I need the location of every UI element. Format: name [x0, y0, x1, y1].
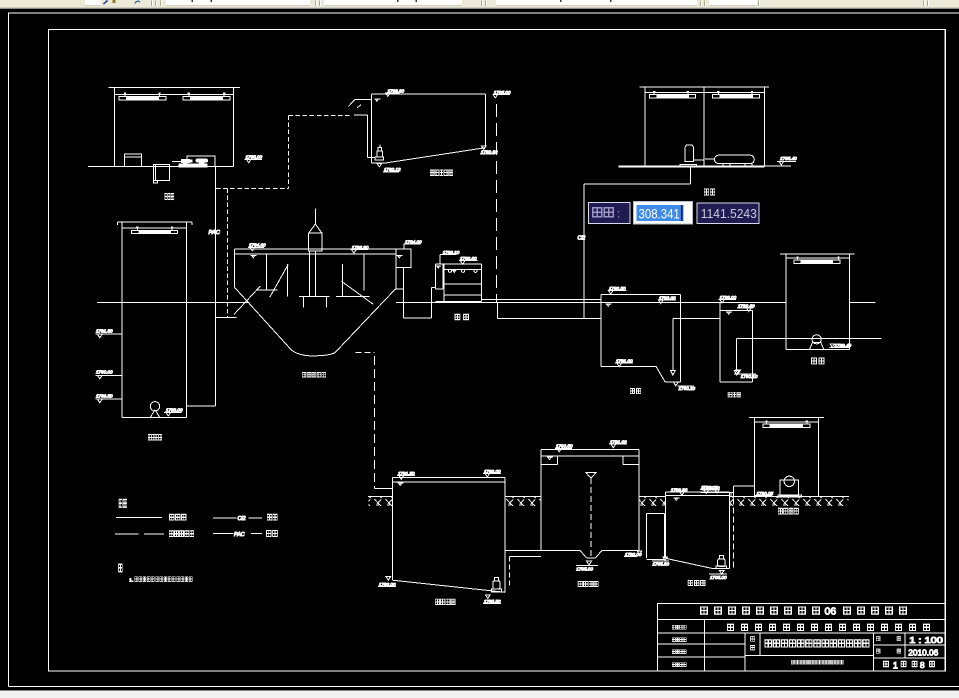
svg-text:2010.06: 2010.06 — [908, 647, 938, 657]
clarifier inlet pipe crossing — [216, 286, 261, 318]
elevation marker 1790.10 suction well bottom — [734, 370, 758, 379]
sludge pipe balancing tank to thickener — [505, 550, 541, 586]
elevation marker 1790.05 feed box — [755, 491, 774, 496]
svg-text:1785.00: 1785.00 — [710, 575, 727, 580]
dosing room ceiling bar 2 — [183, 93, 230, 100]
svg-text:1791.50: 1791.50 — [96, 329, 113, 334]
Cl2 pipe label — [578, 236, 586, 242]
balancing tank submersible pump — [491, 578, 501, 592]
dynamic input value field (selected) — [633, 202, 692, 224]
water level mark mixing tank — [374, 99, 380, 101]
filter box and layers — [431, 264, 481, 302]
thickener walls — [541, 450, 639, 551]
institute name bottom cell — [791, 660, 843, 664]
clear water reservoir suction pipe — [671, 319, 720, 375]
suction well walls — [720, 302, 753, 382]
chlorination room label — [704, 189, 715, 195]
clarifier center column support — [299, 251, 330, 308]
elevation marker 1796.30 mixing tank top — [385, 88, 405, 96]
balancing tank walls — [393, 477, 506, 592]
elevation marker 1791.00 reservoir bottom step — [615, 358, 633, 366]
title block project name row — [728, 624, 930, 630]
pump house walls and roof — [780, 254, 882, 350]
thickener hopper bottom — [541, 550, 639, 558]
elevation marker 1791.50 left — [96, 329, 123, 338]
svg-text:1: 1 — [893, 659, 898, 670]
sludge pond submersible pump — [716, 556, 727, 569]
elevation marker 1793.10 filter left — [440, 250, 460, 264]
water level mark suction well — [726, 312, 732, 314]
drawing name cell label — [751, 637, 755, 650]
water level mark thickener — [547, 457, 553, 459]
mixing tank inlet channel with break marks — [348, 99, 375, 158]
svg-text:1790.10: 1790.10 — [741, 374, 758, 379]
svg-text:1 : 100: 1 : 100 — [909, 636, 943, 645]
elevation marker 1785.00 sludge pond bottom — [709, 571, 727, 580]
application toolbar strip — [0, 0, 959, 9]
svg-text:06: 06 — [825, 606, 837, 618]
filter nozzles — [448, 270, 477, 273]
svg-text:Cl2: Cl2 — [238, 516, 246, 522]
water level mark filter inlet box — [436, 266, 441, 268]
pump house pump unit — [809, 335, 824, 350]
elevation marker 1790.00 left — [96, 370, 123, 379]
sludge pond label — [688, 580, 705, 585]
elevation marker 1792.12 mixing tank bottom left — [377, 163, 401, 172]
chlorination room ceiling bar 1 — [650, 91, 696, 98]
PAC label — [209, 230, 221, 236]
svg-text:8: 8 — [920, 660, 925, 670]
elevation marker 1785.50 balancing tank bottom right — [483, 595, 501, 604]
water level mark balancing tank — [398, 483, 404, 485]
elevation marker 1792.00 reservoir water — [658, 295, 676, 303]
dewatering building ceiling bar — [763, 420, 810, 427]
long dashed section line right of mixing tank — [495, 104, 497, 302]
legend chlorine line — [213, 514, 277, 522]
mixing tank submersible pump — [375, 144, 384, 160]
svg-text:Cl2: Cl2 — [578, 236, 586, 242]
chlorine storage cylinder — [705, 155, 754, 166]
elevation marker 1795.00 right of dosing room — [245, 154, 263, 163]
svg-text:1790.20: 1790.20 — [679, 386, 696, 391]
elevation marker 1794.00 outlet box — [404, 239, 423, 249]
svg-text::: : — [617, 208, 620, 220]
flocculation tank mixer bar — [132, 227, 178, 234]
svg-text:1790.00: 1790.00 — [96, 370, 113, 375]
svg-text:1141.5243: 1141.5243 — [701, 206, 757, 221]
suction well label — [728, 392, 741, 397]
toolbar icon fragments — [104, 0, 929, 6]
flocculation tank label — [148, 434, 162, 440]
sheet number row — [883, 659, 934, 670]
elevation marker 1785.80 pit bottom — [652, 557, 670, 567]
elevation marker 1788.00 at tank bottom — [164, 407, 183, 416]
command tooltip box — [588, 202, 630, 223]
svg-text:1795.40: 1795.40 — [780, 156, 797, 161]
elevation marker 1791.00 thickener right — [609, 440, 627, 448]
pump house crane bar — [794, 256, 840, 263]
water level mark clarifier — [251, 255, 257, 257]
svg-text:1795.00: 1795.00 — [246, 154, 263, 159]
dosing pipe down from dosing room — [187, 167, 216, 406]
title block grid — [658, 604, 946, 672]
elevation marker 1789.40 pump house floor — [830, 343, 852, 348]
elevation marker 1794.30 clarifier top left — [248, 243, 266, 251]
clarifier outlet downcomer duct — [396, 267, 436, 318]
elevation marker 1795.40 right of chlorination room — [777, 156, 797, 165]
chlorine pipe from room down and across — [584, 167, 691, 302]
lower ground line with soil hatch — [368, 497, 849, 506]
PAC dashed dosing line — [216, 116, 350, 319]
elevation marker 1795.00 mixing tank right — [493, 90, 511, 98]
chlorination room walls and roof — [619, 87, 791, 167]
status bar bottom strip — [0, 691, 959, 698]
elevation marker 1792.50 reservoir top — [608, 286, 627, 294]
elevation marker 1790.00 sludge pond top right — [700, 485, 719, 493]
title block header row text — [701, 606, 907, 618]
dewatering building label — [778, 508, 798, 514]
clear water reservoir label — [630, 388, 641, 393]
notes title — [119, 564, 123, 572]
elevation marker 1791.50 balancing tank left — [397, 471, 415, 479]
elevation marker 1792.62 mixing tank bottom right — [480, 146, 498, 155]
elevation marker 1793.80 clarifier top right — [351, 245, 369, 253]
mixing tank body — [371, 94, 485, 163]
scale label and value — [876, 636, 943, 645]
pump house label — [811, 358, 824, 364]
elevation marker 1789.50 left — [96, 394, 123, 403]
clarifier label — [302, 372, 325, 377]
double feed pipe into dewatering building — [701, 493, 734, 497]
title block left labels — [672, 625, 686, 666]
flocculation tank walls — [118, 222, 193, 418]
feed box left of dewatering building — [734, 486, 755, 498]
site ground line upper — [97, 301, 876, 303]
elevation marker 1786.00 balancing tank bottom left — [378, 577, 396, 587]
dewatering building walls and roof — [749, 417, 824, 496]
pipe gallery box under outlet — [498, 302, 601, 318]
clarifier body walls and hopper — [235, 249, 396, 356]
svg-text:1789.50: 1789.50 — [96, 394, 113, 399]
mixing tank label — [430, 170, 452, 176]
svg-text:1.: 1. — [129, 577, 133, 583]
dosing room ceiling bar 1 — [119, 93, 166, 100]
elevation marker 1786.00 thickener bottom right — [624, 551, 642, 557]
dosing room metering pump unit — [172, 156, 215, 167]
clarifier outlet box — [396, 249, 411, 267]
legend title — [119, 499, 127, 507]
flocculation tank bottom pump — [150, 402, 159, 418]
elevation marker 1790.50 thickener left — [555, 444, 573, 452]
elevation marker 1792.00 balancing tank right — [483, 469, 501, 477]
svg-text:308.341: 308.341 — [639, 206, 680, 221]
svg-text:PAC: PAC — [234, 532, 245, 538]
legend PAC line — [213, 530, 278, 537]
filter outlet pipe to clear well — [481, 298, 601, 300]
clarifier top launder plates — [235, 249, 396, 254]
legend drain dashed line — [115, 531, 194, 537]
drainage pit between thickener and sludge pond — [647, 513, 665, 559]
thickener label — [578, 581, 598, 586]
drawing title text — [765, 640, 869, 647]
balancing tank inlet dashed drain from clarifier — [355, 352, 392, 488]
svg-text:1788.00: 1788.00 — [166, 407, 183, 412]
suction well pump pipe — [734, 339, 786, 376]
elevation marker 1793.60 filter top — [459, 256, 477, 264]
water level mark clear water reservoir — [606, 304, 612, 306]
elevation marker 1793.00 suction well left — [719, 295, 737, 303]
thickener center sludge pipe — [586, 472, 596, 558]
chlorine evaporator vessel — [680, 145, 704, 166]
dynamic input second value field — [697, 203, 759, 224]
elevation marker 1789.80 sludge pond top left — [670, 487, 688, 495]
dosing room label — [165, 193, 174, 199]
dosing room chemical box on floor — [124, 154, 141, 167]
elevation marker 1790.20 reservoir bottom — [674, 382, 696, 391]
sludge pond walls — [666, 492, 730, 568]
svg-text:1785.80: 1785.80 — [653, 561, 670, 566]
elevation marker 1792.60 suction well top — [737, 303, 755, 311]
elevation marker 1790.50 feed pipe — [702, 485, 720, 493]
elevation marker 1785.00 thickener hopper — [576, 561, 598, 571]
dewatering machine — [778, 476, 801, 497]
sludge pond suction dashed pipe — [733, 499, 735, 569]
balancing tank label — [435, 599, 455, 604]
dosing room building walls and roof — [88, 88, 240, 167]
dosing room solution tank below floor — [153, 165, 169, 184]
chlorination room ceiling bar 2 — [713, 91, 760, 98]
clear water reservoir walls — [601, 294, 681, 382]
filter label — [455, 314, 469, 320]
notes text line — [129, 577, 192, 584]
water level mark sludge pond — [674, 498, 680, 500]
legend raw water line — [116, 514, 186, 520]
date label and value — [876, 647, 938, 657]
feed pipe to clarifier — [309, 209, 322, 251]
clarifier internal baffles — [257, 254, 374, 305]
svg-text:PAC: PAC — [209, 230, 221, 236]
svg-text:1785.00: 1785.00 — [576, 566, 593, 571]
